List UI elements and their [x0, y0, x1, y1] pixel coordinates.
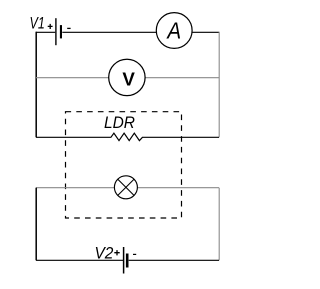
svg-text:V1: V1 [30, 15, 45, 33]
svg-text:V2: V2 [95, 245, 114, 263]
svg-text:V: V [122, 69, 135, 90]
svg-text:A: A [166, 18, 182, 44]
svg-text:LDR: LDR [104, 114, 135, 132]
